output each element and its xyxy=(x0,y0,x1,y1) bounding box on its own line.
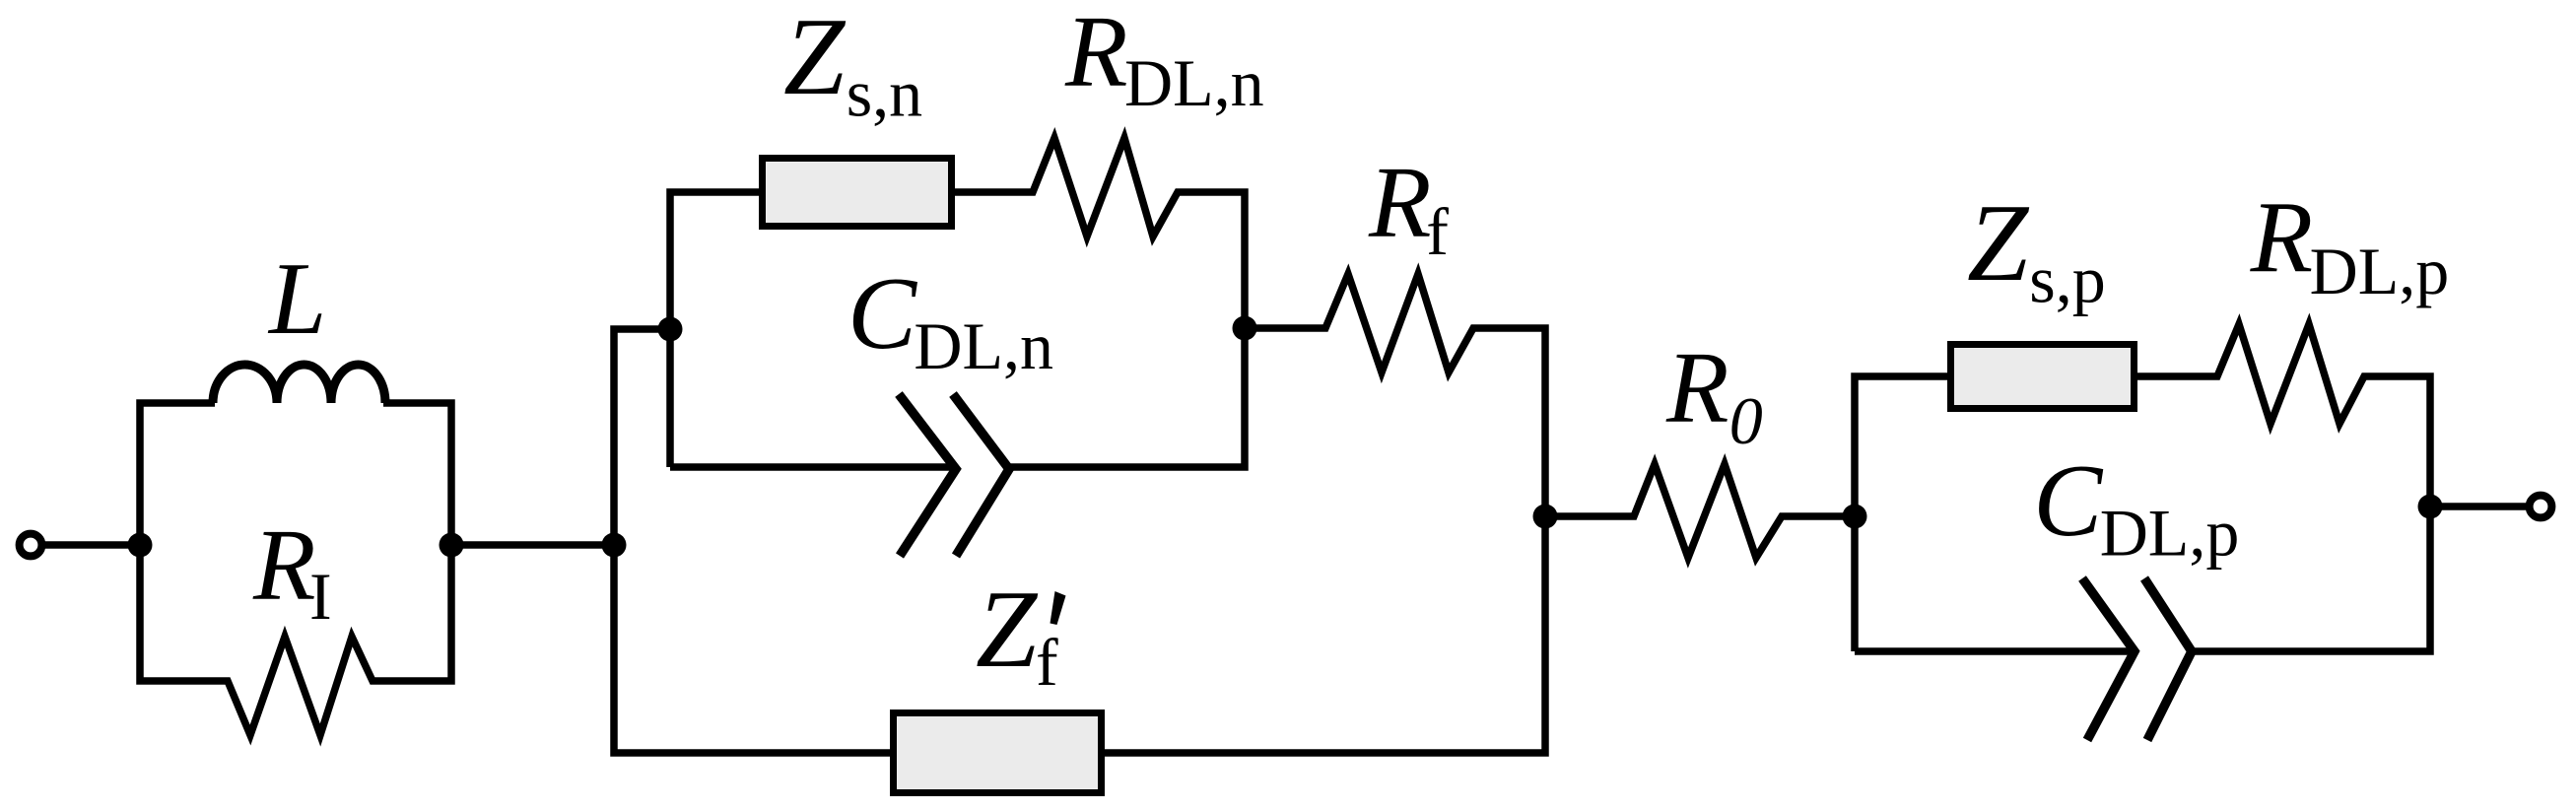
svg-text:Z: Z xyxy=(783,0,847,118)
svg-text:Z: Z xyxy=(976,569,1039,691)
svg-text:f: f xyxy=(1036,625,1058,700)
svg-text:0: 0 xyxy=(1729,383,1763,458)
svg-text:R: R xyxy=(2250,181,2314,295)
svg-text:f: f xyxy=(1426,194,1449,269)
svg-text:s,p: s,p xyxy=(2029,242,2105,317)
svg-text:R: R xyxy=(1368,146,1432,259)
svg-text:Z: Z xyxy=(1967,182,2030,304)
svg-text:C: C xyxy=(847,255,918,371)
svg-text:DL,n: DL,n xyxy=(1124,45,1264,120)
svg-text:s,n: s,n xyxy=(847,56,922,131)
svg-text:DL,n: DL,n xyxy=(914,308,1053,383)
svg-text:DL,p: DL,p xyxy=(2100,496,2240,571)
svg-text:I: I xyxy=(309,559,332,634)
svg-text:L: L xyxy=(267,240,326,356)
svg-text:DL,p: DL,p xyxy=(2310,234,2450,308)
svg-text:R: R xyxy=(1064,0,1128,108)
svg-text:R: R xyxy=(1665,331,1729,444)
svg-text:R: R xyxy=(252,508,316,622)
svg-text:C: C xyxy=(2033,442,2104,558)
